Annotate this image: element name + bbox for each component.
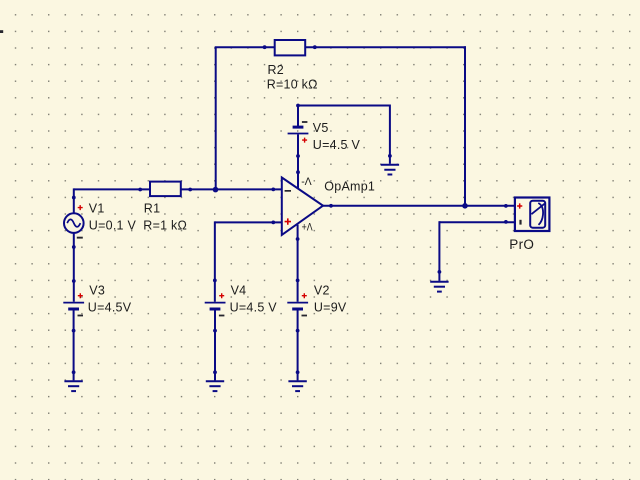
wire: [73, 188, 75, 213]
ground (V5): [381, 165, 399, 175]
resistor R1: [138, 182, 192, 233]
node dot: [296, 154, 300, 158]
wire: [297, 134, 299, 188]
node dot: [72, 370, 76, 374]
ground (probe): [430, 282, 448, 292]
svg-text:R=10 kΩ: R=10 kΩ: [267, 78, 318, 92]
svg-text:R2: R2: [268, 63, 284, 77]
wire: [297, 105, 299, 127]
junction: [213, 187, 219, 193]
battery V4: [205, 284, 278, 317]
node dot: [296, 104, 300, 108]
wire: [215, 47, 217, 189]
svg-text:V1: V1: [89, 202, 105, 216]
svg-text:R=1 kΩ: R=1 kΩ: [143, 218, 187, 232]
svg-text:V2: V2: [314, 284, 330, 298]
wire: [73, 310, 75, 380]
node dot: [296, 329, 300, 333]
node dot: [72, 329, 76, 333]
wire: [439, 221, 515, 223]
battery V2: [287, 284, 347, 317]
svg-text:U=4.5 V: U=4.5 V: [230, 301, 278, 315]
svg-text:R1: R1: [144, 202, 160, 216]
node dot: [504, 220, 508, 224]
node dot: [296, 370, 300, 374]
wire: [74, 188, 150, 190]
svg-text:V5: V5: [313, 121, 329, 135]
node dot: [72, 196, 76, 200]
wire: [438, 221, 440, 281]
node dot: [296, 279, 300, 283]
node dot: [388, 154, 392, 158]
svg-text:V3: V3: [89, 284, 105, 298]
probe PrO: [509, 198, 549, 252]
svg-text:U=0.1 V: U=0.1 V: [89, 218, 137, 232]
ground (V4): [206, 381, 224, 391]
node dot: [72, 245, 76, 249]
node dot: [271, 188, 275, 192]
svg-text:OpAmp1: OpAmp1: [324, 179, 375, 193]
wire: [181, 188, 282, 190]
wire: [214, 310, 216, 380]
svg-text:PrO: PrO: [509, 237, 534, 252]
node dot: [213, 329, 217, 333]
stray mark: [0, 30, 3, 33]
battery V3: [63, 284, 131, 317]
node dot: [72, 279, 76, 283]
ac source V1: [64, 202, 136, 239]
svg-text:U=4.5 V: U=4.5 V: [313, 138, 361, 152]
node dot: [271, 221, 275, 225]
node dot: [296, 170, 300, 174]
wire: [297, 105, 390, 107]
wire: [214, 221, 216, 301]
wire: [297, 225, 299, 302]
wire: [297, 310, 299, 380]
ground (V3): [64, 381, 82, 391]
wire: [464, 46, 466, 206]
svg-text:U=4.5V: U=4.5V: [88, 301, 132, 315]
junction: [462, 203, 468, 209]
node dot: [438, 270, 442, 274]
ground (V2): [288, 381, 306, 391]
wire: [215, 221, 282, 223]
battery V5: [288, 121, 361, 152]
op-amp U1 OpAmp1: [282, 176, 375, 235]
resistor R2: [263, 40, 318, 92]
wire: [305, 46, 466, 48]
wire: [323, 205, 515, 207]
node dot: [329, 204, 333, 208]
svg-text:+Λ: +Λ: [302, 222, 314, 234]
svg-text:V4: V4: [231, 284, 247, 298]
node dot: [296, 237, 300, 241]
svg-text:U=9V: U=9V: [314, 301, 347, 315]
node dot: [213, 370, 217, 374]
wire: [215, 46, 275, 48]
node dot: [504, 204, 508, 208]
wire: [389, 105, 391, 164]
wire: [73, 233, 75, 302]
node dot: [213, 279, 217, 283]
svg-text:-Λ: -Λ: [301, 176, 312, 188]
